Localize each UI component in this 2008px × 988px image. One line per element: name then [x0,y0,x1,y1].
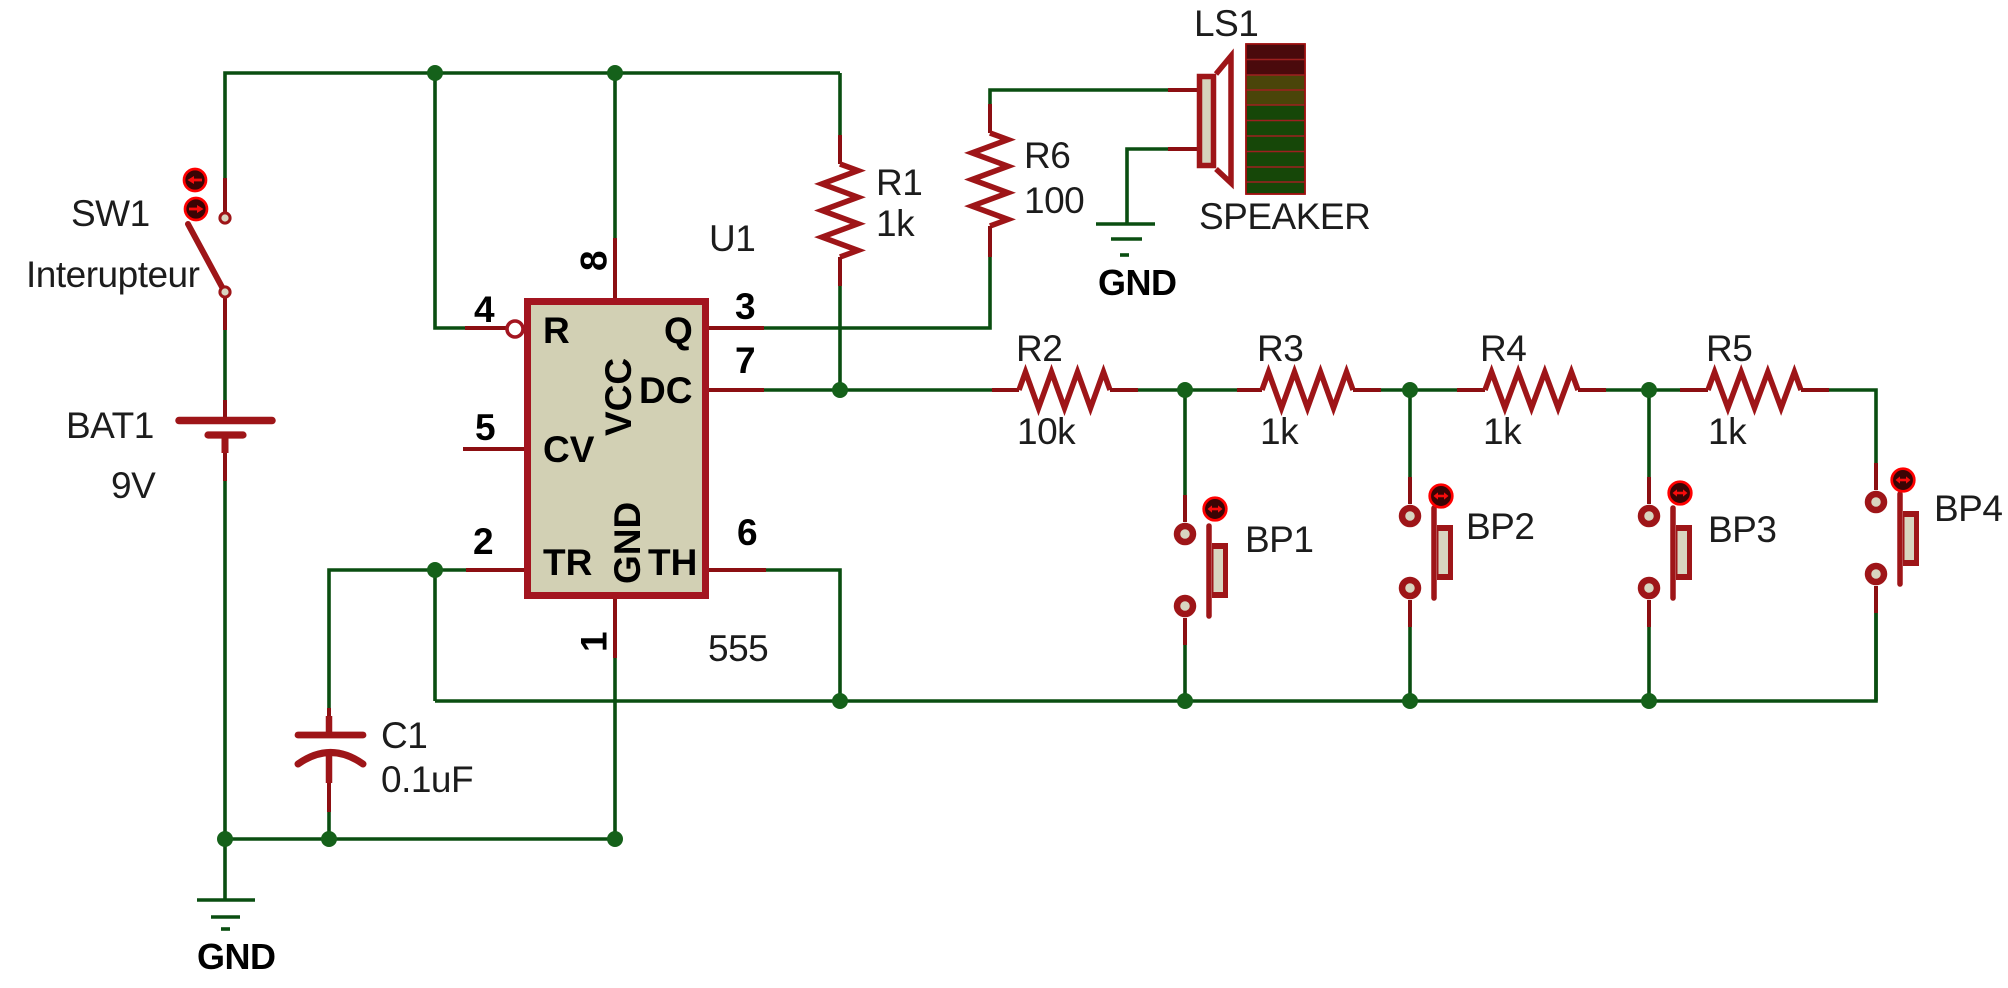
wire TR junction down to rail [433,570,437,701]
wire C1 bottom to left rail [327,812,331,839]
wire BP3 column upper [1647,390,1651,477]
junction node B [1402,382,1418,398]
resistor R3 [1237,372,1381,408]
svg-text:0.1uF: 0.1uF [381,759,473,800]
svg-text:U1: U1 [709,218,755,259]
svg-text:BP3: BP3 [1708,509,1776,550]
svg-text:1k: 1k [876,203,915,244]
junction BP3 rail [1641,693,1657,709]
svg-text:5: 5 [475,407,496,448]
resistor R1 [822,135,858,286]
svg-text:C1: C1 [381,715,427,756]
wire top VCC rail and left vertical to switch [225,73,840,178]
svg-text:7: 7 [735,340,756,381]
svg-text:DC: DC [639,370,692,411]
wire bottom ground rail [435,613,1876,701]
junction top rail pin4 [427,65,443,81]
pin 1 stub [613,599,617,658]
junction TR C1 [427,562,443,578]
svg-text:GND: GND [1098,262,1177,303]
wire speaker minus to GND [1127,149,1168,224]
wire BP1 column lower [1183,645,1187,701]
pushbutton BP3 [1641,477,1692,627]
svg-text:555: 555 [708,628,768,669]
wire C1 top to pin 2 TR [329,570,466,710]
svg-text:R1: R1 [876,162,922,203]
svg-text:1k: 1k [1260,411,1299,452]
wire VCC rail to pin 8 [613,73,617,238]
svg-text:R: R [543,310,570,351]
svg-text:1: 1 [574,631,615,652]
svg-text:LS1: LS1 [1194,3,1258,44]
wire R4 to node C [1606,388,1680,392]
svg-text:CV: CV [543,429,595,470]
svg-text:100: 100 [1024,180,1084,221]
svg-text:GND: GND [607,502,648,584]
svg-text:BP4: BP4 [1934,488,2002,529]
ground left GND symbol [197,900,276,977]
wire BP4 column lower [1874,613,1878,701]
wire pin 1 down to left rail [613,658,617,839]
svg-text:Q: Q [664,310,693,351]
wire pin 6 TH to rail [766,570,840,701]
svg-text:8: 8 [574,250,615,271]
pushbutton BP1 [1177,495,1228,645]
wire R5 to BP4 column [1829,390,1876,463]
wire VCC rail to pin 4 [435,73,465,328]
svg-text:1k: 1k [1483,411,1522,452]
wire BP1 column upper [1183,390,1187,495]
junction top rail pin8 [607,65,623,81]
wire R2 to node A [1138,388,1237,392]
pin 8 stub [613,238,617,298]
svg-text:R5: R5 [1706,328,1752,369]
junction R1 DC [832,382,848,398]
junction BP2 rail [1402,693,1418,709]
battery BAT1 [179,400,272,481]
svg-text:R2: R2 [1016,328,1062,369]
wire battery to bottom-left rail [223,481,227,839]
junction TH rail [832,693,848,709]
pin 3 stub [709,326,764,330]
pin 4 stub [465,326,506,330]
svg-text:TH: TH [648,542,697,583]
pushbutton BP4 [1868,463,1919,613]
svg-text:3: 3 [735,286,756,327]
svg-text:10k: 10k [1017,411,1076,452]
svg-text:R3: R3 [1257,328,1303,369]
junction node C [1641,382,1657,398]
wire BP2 column lower [1408,627,1412,701]
resistor R6 [972,104,1008,257]
wire R1 bottom to DC node [838,286,842,390]
svg-text:VCC: VCC [598,358,639,436]
wire R3 to node B [1381,388,1457,392]
resistor R4 [1457,372,1606,408]
wire pin 7 DC to R2 [764,388,992,392]
resistor R2 [992,372,1138,408]
svg-text:9V: 9V [111,465,156,506]
svg-text:GND: GND [197,936,276,977]
ground speaker GND symbol [1096,224,1177,303]
pin 4 inversion bubble [507,321,523,337]
svg-text:1k: 1k [1708,411,1747,452]
junction battery left rail [217,831,233,847]
pin 2 stub [466,568,524,572]
wire bottom-left ground rail [225,837,615,841]
op-amp U1 555 timer body [528,302,706,596]
resistor R5 [1680,372,1829,408]
svg-text:TR: TR [543,542,592,583]
junction C1 left rail [321,831,337,847]
svg-text:BAT1: BAT1 [66,405,154,446]
svg-text:Interupteur: Interupteur [26,254,200,295]
wire R6 top to speaker plus [990,90,1168,104]
svg-text:BP2: BP2 [1466,506,1534,547]
wire BP2 column upper [1408,390,1412,477]
speaker LS1 [1168,44,1305,194]
svg-text:2: 2 [473,521,494,562]
wire VCC rail down to R1 [838,73,842,135]
pin 7 stub [709,388,764,392]
wire switch to battery [223,330,227,400]
wire to left GND symbol [223,839,227,900]
svg-text:SW1: SW1 [71,193,150,234]
svg-text:BP1: BP1 [1245,519,1313,560]
junction pin1 left rail [607,831,623,847]
pin 6 stub [709,568,766,572]
svg-text:R6: R6 [1024,135,1070,176]
svg-text:6: 6 [737,512,758,553]
junction BP1 rail [1177,693,1193,709]
switch SW1 [184,169,230,330]
junction node A [1177,382,1193,398]
svg-text:4: 4 [474,289,495,330]
svg-text:R4: R4 [1480,328,1526,369]
wire pin 3 Q to R6 bottom [764,257,990,328]
pin 5 stub [463,447,524,451]
capacitor C1 [298,708,363,812]
wire BP3 column lower [1647,627,1651,701]
pushbutton BP2 [1402,477,1453,627]
svg-text:SPEAKER: SPEAKER [1199,196,1370,237]
